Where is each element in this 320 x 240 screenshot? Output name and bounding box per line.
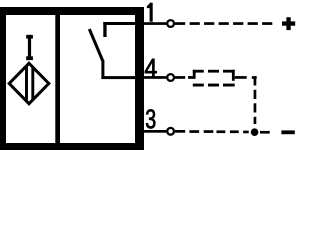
switch blade	[89, 29, 103, 61]
dashed wire from load	[235, 76, 247, 79]
terminal circle 1	[167, 20, 174, 27]
pin label 3	[146, 109, 155, 128]
dashed wire to plus	[190, 22, 273, 25]
switch fixed contact top line	[103, 22, 135, 25]
switch blade lower vertical	[101, 60, 104, 79]
sensor housing bottom border	[0, 143, 144, 150]
dash into load	[188, 76, 193, 79]
sensor housing top border	[1, 7, 145, 15]
wire pin3 to terminal	[144, 130, 166, 133]
terminal circle 4	[167, 74, 174, 81]
current symbol I	[26, 35, 33, 60]
vertical dashed wire	[254, 76, 257, 124]
internal divider wall	[55, 13, 60, 144]
diamond inner left bar	[25, 66, 28, 101]
dashed wire to junction	[189, 130, 248, 133]
pin label 1	[147, 3, 153, 22]
wire stub after terminal 1	[175, 22, 185, 25]
pin label 4	[145, 59, 157, 78]
sensor housing left border	[0, 7, 6, 150]
wire pin4 to terminal	[144, 76, 166, 79]
dash after junction	[260, 131, 270, 134]
inductive sensor diamond	[9, 63, 49, 103]
terminal circle 3	[167, 128, 174, 135]
wire stub after terminal 3	[175, 130, 185, 133]
wire pin1 to terminal	[144, 22, 166, 25]
plus supply symbol	[282, 17, 295, 30]
minus supply symbol	[281, 130, 294, 134]
diamond inner right bar	[31, 67, 34, 100]
dashed load box	[193, 70, 235, 87]
dashed corner to vertical drop	[252, 76, 257, 79]
wire stub after terminal 4	[175, 76, 185, 79]
junction dot	[251, 128, 259, 136]
sensor housing thick right bar (output face)	[135, 7, 144, 150]
switch fixed contact stub	[103, 22, 106, 37]
switch output line to pin 4	[101, 76, 135, 79]
